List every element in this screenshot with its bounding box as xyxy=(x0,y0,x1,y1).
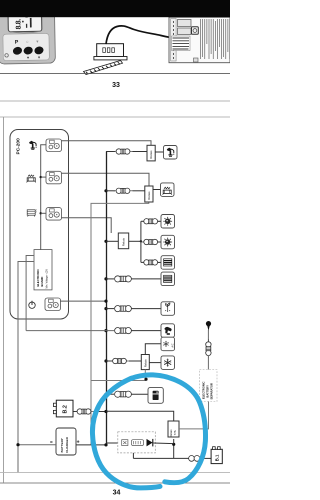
LCD digits 88 rotated xyxy=(15,19,22,30)
relay K3 xyxy=(118,233,128,249)
row3 connector J3 xyxy=(141,220,144,222)
wire charger plus to bus xyxy=(76,444,106,446)
power symbol xyxy=(29,302,35,308)
svg-text:77A: 77A xyxy=(173,430,177,435)
row6 junction xyxy=(104,277,107,280)
appliance icon: heater L5 xyxy=(161,256,175,270)
connector J8 xyxy=(115,328,132,334)
terminal block xyxy=(132,440,144,446)
junction xyxy=(144,378,147,381)
node B2/bus xyxy=(104,410,107,413)
connector J1 xyxy=(114,149,133,154)
appliance icon: heating L6 xyxy=(161,272,175,286)
svg-text:A/C: A/C xyxy=(171,343,174,347)
connector J10 xyxy=(115,391,132,397)
wire to battery B1 xyxy=(133,457,189,459)
P label xyxy=(3,33,49,60)
branch node xyxy=(140,240,142,242)
junction xyxy=(172,443,175,446)
svg-text:ELECTRONIC: ELECTRONIC xyxy=(36,269,40,287)
hatched wedge xyxy=(84,61,123,75)
row7 junction xyxy=(104,307,107,310)
PC-200 control box U1 xyxy=(10,130,69,320)
battery B2 xyxy=(56,400,73,417)
svg-text:B.2: B.2 xyxy=(63,405,69,413)
row3-5 relay K3 junction xyxy=(104,240,107,243)
internal wire from connector CN1 down to board xyxy=(41,145,46,250)
appliance icon: air conditioner L9 xyxy=(161,337,175,351)
connector J13 xyxy=(189,456,195,462)
PC-200 appliance icon: water tap xyxy=(29,141,36,150)
svg-text:B.1: B.1 xyxy=(215,454,220,461)
top black band xyxy=(0,0,230,17)
electronic battery separator A2 xyxy=(200,370,218,402)
wire CN3 to relay K3 xyxy=(61,218,111,233)
page 34 top edge xyxy=(0,116,230,118)
svg-text:SEPARATOR: SEPARATOR xyxy=(209,383,213,399)
relay K2 xyxy=(145,186,153,202)
connector J2 xyxy=(114,188,133,193)
mounting box (page 33 middle) xyxy=(94,44,127,60)
svg-text:Relais: Relais xyxy=(122,237,126,246)
svg-text:BATTERY: BATTERY xyxy=(205,385,209,398)
electronic board A1 xyxy=(34,250,52,290)
appliance icon: lamp L4 xyxy=(161,235,175,249)
junction xyxy=(40,212,42,214)
PC-200 appliance icon: grill xyxy=(27,175,36,183)
power bus junction xyxy=(104,300,107,303)
wire board to pump row xyxy=(26,256,34,331)
junction xyxy=(40,176,42,178)
node bus bottom xyxy=(104,443,107,446)
wire CN2 to relay K2 xyxy=(61,173,149,186)
battery B1 xyxy=(211,449,222,463)
svg-text:Min. Voltage +12V: Min. Voltage +12V xyxy=(46,269,49,289)
svg-text:Relais: Relais xyxy=(143,359,147,368)
wire relay K4 to fan icon xyxy=(149,362,161,364)
appliance icon: tap L1 xyxy=(164,146,178,160)
svg-text:CHARGER: CHARGER xyxy=(65,436,69,452)
appliance icon: lamp L3 xyxy=(161,215,175,229)
page 33 bottom edge xyxy=(0,100,230,102)
svg-text:8.8.: 8.8. xyxy=(15,19,22,30)
row5 connector J5 xyxy=(141,261,144,263)
wire relay K5 down to B1 line xyxy=(173,439,175,458)
svg-text:Relais: Relais xyxy=(147,191,151,200)
wire CN1 to relay K1 xyxy=(61,141,151,146)
connector CN3 xyxy=(46,208,62,221)
connector CN4 power xyxy=(45,298,61,311)
wire diode to K5 junction xyxy=(154,442,174,445)
main +12V bus xyxy=(106,152,108,445)
connector J12 xyxy=(73,411,78,413)
wire board to charger xyxy=(18,262,34,473)
svg-text:BOARD: BOARD xyxy=(40,277,44,287)
appliance icon: probe/plant L7 xyxy=(161,302,175,316)
junction xyxy=(16,443,19,446)
wire stub to CN2 xyxy=(41,176,46,178)
three buttons xyxy=(12,46,23,56)
connector J6 xyxy=(115,276,132,282)
svg-text:ELECTRONIC: ELECTRONIC xyxy=(201,381,205,399)
wire relay K4 bottom to ground line xyxy=(91,370,145,381)
wire module down to B1 line xyxy=(132,453,134,459)
svg-text:Relais: Relais xyxy=(149,150,153,159)
page 34 bottom thin line xyxy=(0,472,230,474)
probe sensor xyxy=(206,321,211,326)
wire stub to CN3 xyxy=(41,212,46,214)
appliance icon: grill L2 xyxy=(161,183,175,197)
wire bus to diode box xyxy=(106,442,118,444)
connector J7 xyxy=(115,306,132,312)
connector CN1 xyxy=(46,139,62,152)
wire charger minus to board line xyxy=(18,444,56,446)
svg-text:P: P xyxy=(15,40,19,46)
page 34 left border xyxy=(3,117,5,483)
battery charger xyxy=(56,428,76,455)
svg-text:▼: ▼ xyxy=(37,56,40,60)
svg-text:=: = xyxy=(50,440,53,445)
svg-text:▼: ▼ xyxy=(26,56,29,60)
diode module dashed box xyxy=(118,432,156,453)
wire relay K4 top to AC icon xyxy=(145,344,161,355)
fuse element xyxy=(122,440,128,446)
page 33 footer rule xyxy=(0,73,230,75)
blue highlight circle xyxy=(131,375,205,483)
diode D1 xyxy=(147,439,153,447)
svg-text:○: ○ xyxy=(26,39,29,44)
connector J9 xyxy=(110,358,129,363)
relay K5 77A xyxy=(168,421,179,437)
PC-200 appliance icon: heater vent xyxy=(27,210,37,217)
circuit board panel (page 33 right) xyxy=(169,17,230,63)
connector CN2 xyxy=(46,171,62,184)
control panel device (page 33 left) xyxy=(0,11,55,64)
relay K1 xyxy=(147,145,155,161)
ground return wire from K2 xyxy=(91,202,149,444)
row9 junction xyxy=(104,359,107,362)
page 34 bottom border xyxy=(0,482,230,484)
row8 junction xyxy=(104,329,107,332)
row4 connector J4 xyxy=(141,239,160,244)
relay K4 xyxy=(141,355,149,370)
appliance icon: fan L10 xyxy=(161,356,175,370)
wire bus to separator relay xyxy=(106,411,174,423)
svg-text:PC-200: PC-200 xyxy=(16,138,22,155)
wire separator to relay K5 xyxy=(179,402,209,429)
svg-text:34: 34 xyxy=(113,490,121,497)
wire relay K3 to branch xyxy=(129,240,141,242)
cable from box to panel xyxy=(106,26,171,44)
row10 junction xyxy=(104,393,107,396)
svg-text:33: 33 xyxy=(112,82,120,89)
wire CN4 to bus xyxy=(60,300,106,302)
appliance icon: water tap black L8 xyxy=(161,324,175,338)
appliance icon: fridge L11 xyxy=(148,388,163,404)
svg-text:BATTERY: BATTERY xyxy=(60,437,64,452)
row1 wire bus to connector to relay xyxy=(106,151,115,153)
row2 junction xyxy=(104,189,107,192)
probe connector J11 xyxy=(206,339,211,358)
